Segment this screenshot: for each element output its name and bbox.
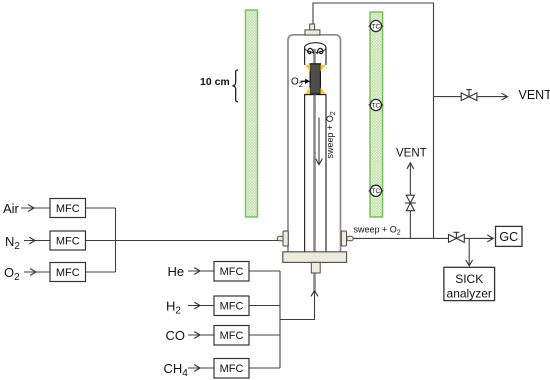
spring contact left [308,48,314,53]
top fitting [310,24,315,30]
svg-text:TC: TC [372,23,381,30]
MFC O2 [50,263,86,282]
lower support tube [305,95,326,253]
wire: sweep feed line from left manifold to left port [86,240,281,242]
manifold left (Air/N2/O2 collector) [115,208,117,272]
MFC CH4 [214,359,249,379]
arrow O2 [24,271,50,273]
svg-text:MFC: MFC [220,363,244,375]
SICK analyzer box [444,267,495,300]
arrow up to VENT middle [409,163,411,195]
capillary tube [313,49,316,291]
arrow H2 [188,305,214,307]
svg-text:MFC: MFC [220,266,244,278]
svg-text:TC: TC [372,188,381,195]
svg-text:He: He [168,264,185,279]
svg-text:analyzer: analyzer [447,287,492,301]
arrow O2 into membrane [301,80,306,82]
arrow CH4 [188,367,214,369]
base flange [283,252,347,263]
side port left [277,236,283,241]
wire: reactor top outlet up and across to right header [313,3,434,238]
wire: valve V3 to GC [464,237,493,239]
side port right [341,231,346,246]
wire MFC He to manifold [249,270,280,272]
wire: valve V1 to VENT [477,96,507,98]
svg-text:VENT: VENT [396,148,427,160]
GC box [496,226,523,246]
wire: down to SICK analyzer [468,238,470,265]
sealant top right [320,65,325,72]
valve V3 (to GC) [449,232,465,242]
spring contact right [317,48,323,53]
MFC N2 [50,231,86,250]
svg-text:MFC: MFC [56,236,80,248]
thermocouple TC2 [369,99,384,110]
MFC He [214,262,249,282]
thermocouple TC1 [369,20,384,31]
wire MFC CH4 to manifold [249,367,280,369]
svg-text:GC: GC [499,230,518,244]
svg-text:10 cm: 10 cm [200,76,230,88]
svg-text:SICK: SICK [455,272,483,286]
valve V2 (vertical vent valve) [405,195,416,211]
furnace wall right (hatched bar) [370,12,383,217]
wire MFC CO to manifold [249,334,280,336]
svg-text:MFC: MFC [56,203,80,215]
MFC H2 [214,296,249,316]
svg-text:CO: CO [166,328,186,343]
wire MFC Air to manifold [86,207,116,209]
bottom fitting [311,262,320,273]
svg-text:Air: Air [3,201,20,216]
sealant bottom right [320,87,325,94]
MFC Air [50,199,86,218]
sweep flow arrow (down inside tube) [318,118,320,165]
wire: sweep outlet header to GC valve [352,237,448,239]
svg-text:MFC: MFC [56,267,80,279]
arrow Air [21,207,50,209]
outer quartz tube [288,35,341,256]
svg-text:VENT: VENT [519,88,550,102]
furnace wall left (hatched bar) [246,10,258,217]
arrow CO [188,334,214,336]
sealant top left [305,65,310,72]
manifold bottom (He/H2/CO/CH4 collector) [279,271,281,368]
svg-text:MFC: MFC [220,301,244,313]
thermocouple TC3 [369,185,384,196]
arrow He [188,270,214,272]
scale brace [233,70,238,102]
wire: bottom manifold to reactor feed inlet [280,291,315,320]
wire MFC O2 to manifold [86,271,116,273]
membrane rod [310,64,320,94]
svg-text:TC: TC [372,102,381,109]
inner membrane tube dome [305,43,326,65]
valve V1 (top vent) [461,90,477,101]
sealant bottom left [305,87,310,94]
svg-text:MFC: MFC [220,330,244,342]
wire: valve V2 down to header [409,211,411,239]
wire MFC H2 to manifold [249,305,280,307]
MFC CO [214,326,249,346]
arrow N2 [24,240,50,242]
arrow feed up into reactor [311,290,318,296]
wire: header to vent valve V1 [434,96,462,98]
